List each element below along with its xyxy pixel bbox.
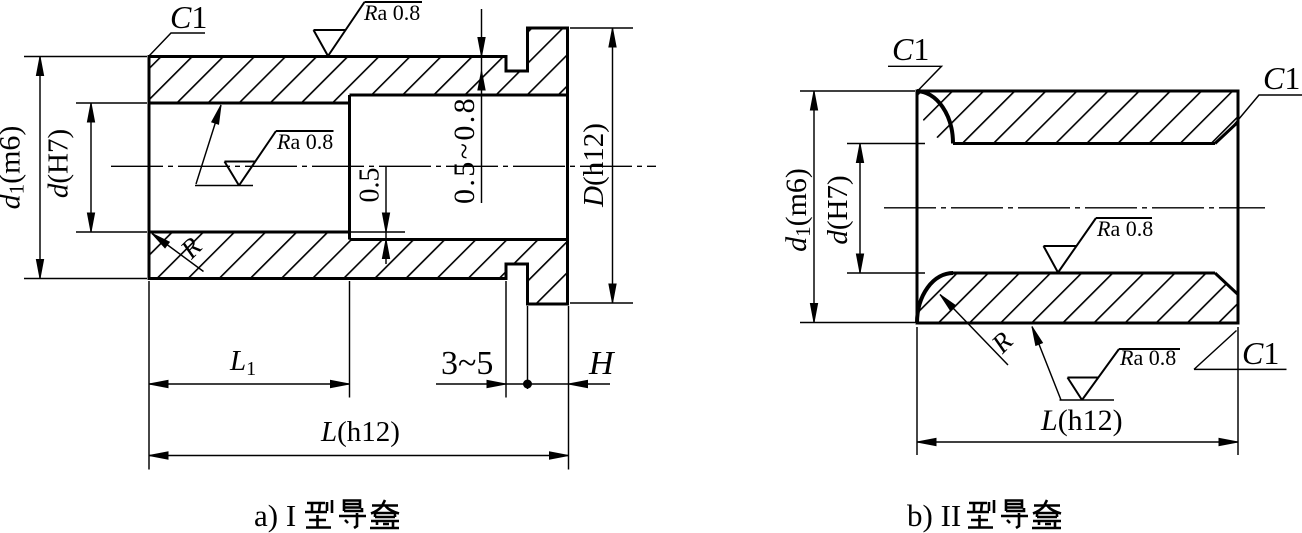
- extension lines d1 b: [800, 91, 915, 323]
- bore top line b: [953, 142, 1215, 145]
- bore bottom line b: [953, 272, 1215, 275]
- dimension 3~5 and H line a: [436, 383, 610, 385]
- svg-text:d(H7): d(H7): [822, 175, 854, 244]
- svg-text:d(H7): d(H7): [43, 129, 75, 198]
- extension lines D a: [570, 28, 633, 303]
- R leader b: [940, 295, 1008, 366]
- dimension D line a: [612, 28, 614, 303]
- body outline b: [917, 91, 1238, 323]
- roughness leader bore a: [195, 105, 253, 186]
- counterbore top line a: [350, 94, 568, 97]
- caption b CJK 型导套: [967, 500, 1061, 528]
- radius arc top left b: [917, 91, 953, 144]
- svg-text:L(h12): L(h12): [320, 416, 400, 448]
- svg-text:Ra 0.8: Ra 0.8: [276, 129, 333, 154]
- centerline b: [884, 207, 1265, 209]
- svg-text:d1(m6): d1(m6): [780, 168, 815, 252]
- svg-text:H: H: [588, 345, 616, 382]
- hatch top wall section b: [917, 91, 1238, 144]
- dimension 0.5~0.8 line a: [481, 9, 483, 203]
- svg-text:C1: C1: [1242, 335, 1279, 371]
- roughness leader bottom b: [1032, 327, 1114, 401]
- counterbore step edge a: [348, 95, 351, 240]
- dimension 0.5 line a: [385, 166, 387, 264]
- svg-text:b) II: b) II: [907, 498, 961, 533]
- svg-text:d1(m6): d1(m6): [0, 126, 29, 210]
- dimension d line b: [859, 144, 861, 274]
- hatch bottom wall section b: [917, 273, 1238, 323]
- extension lines d b: [847, 144, 925, 274]
- radius arc bottom left b: [917, 273, 953, 323]
- svg-text:C1: C1: [170, 0, 207, 35]
- bore chamfer top right b: [1215, 122, 1238, 144]
- extension verticals bottom b: [917, 327, 1238, 455]
- svg-text:C1: C1: [1263, 60, 1300, 96]
- svg-text:Ra 0.8: Ra 0.8: [1096, 216, 1153, 241]
- svg-text:Ra 0.8: Ra 0.8: [1119, 345, 1176, 370]
- bore chamfer bottom right b: [1215, 273, 1238, 295]
- C1 leader top right b: [1233, 95, 1302, 126]
- svg-text:C1: C1: [892, 31, 929, 67]
- dimension d line a: [90, 103, 92, 232]
- dimension L1 a: [149, 383, 350, 385]
- dimension L a: [149, 455, 569, 457]
- svg-text:D(h12): D(h12): [578, 123, 610, 208]
- svg-text:Ra 0.8: Ra 0.8: [363, 0, 420, 25]
- roughness symbol top a: [314, 2, 423, 56]
- roughness symbol bore a: [225, 131, 334, 186]
- C1 leader a: [149, 33, 205, 56]
- C1 leader top left b: [888, 66, 942, 90]
- dimension d1 line a: [39, 57, 41, 279]
- body outline a: [149, 28, 568, 304]
- counterbore bottom line a: [350, 238, 568, 241]
- caption a CJK 型导套: [305, 500, 399, 528]
- svg-text:L(h12): L(h12): [1040, 404, 1123, 437]
- hatch bottom wall section a: [149, 232, 568, 304]
- centerline a: [111, 165, 656, 167]
- bore bottom line a: [149, 231, 350, 234]
- bore top line a: [149, 102, 350, 105]
- dimension L line b: [917, 441, 1238, 443]
- dimension d1 line b: [813, 91, 815, 323]
- roughness symbol bottom b: [1068, 349, 1181, 400]
- extension verticals bottom a: [149, 281, 569, 470]
- svg-text:0.5~0.8: 0.5~0.8: [448, 96, 481, 204]
- R leader a: [152, 234, 204, 272]
- dot terminator a: [523, 380, 532, 389]
- svg-text:0.5: 0.5: [355, 168, 386, 203]
- svg-text:a) I: a) I: [254, 498, 296, 533]
- extension lines d1 a: [24, 57, 147, 279]
- roughness symbol bore b: [1044, 218, 1153, 273]
- extension lines d a: [76, 103, 147, 232]
- hatch top wall section a: [149, 28, 568, 103]
- svg-text:3~5: 3~5: [441, 345, 493, 382]
- C1 leader bottom right b: [1194, 331, 1287, 370]
